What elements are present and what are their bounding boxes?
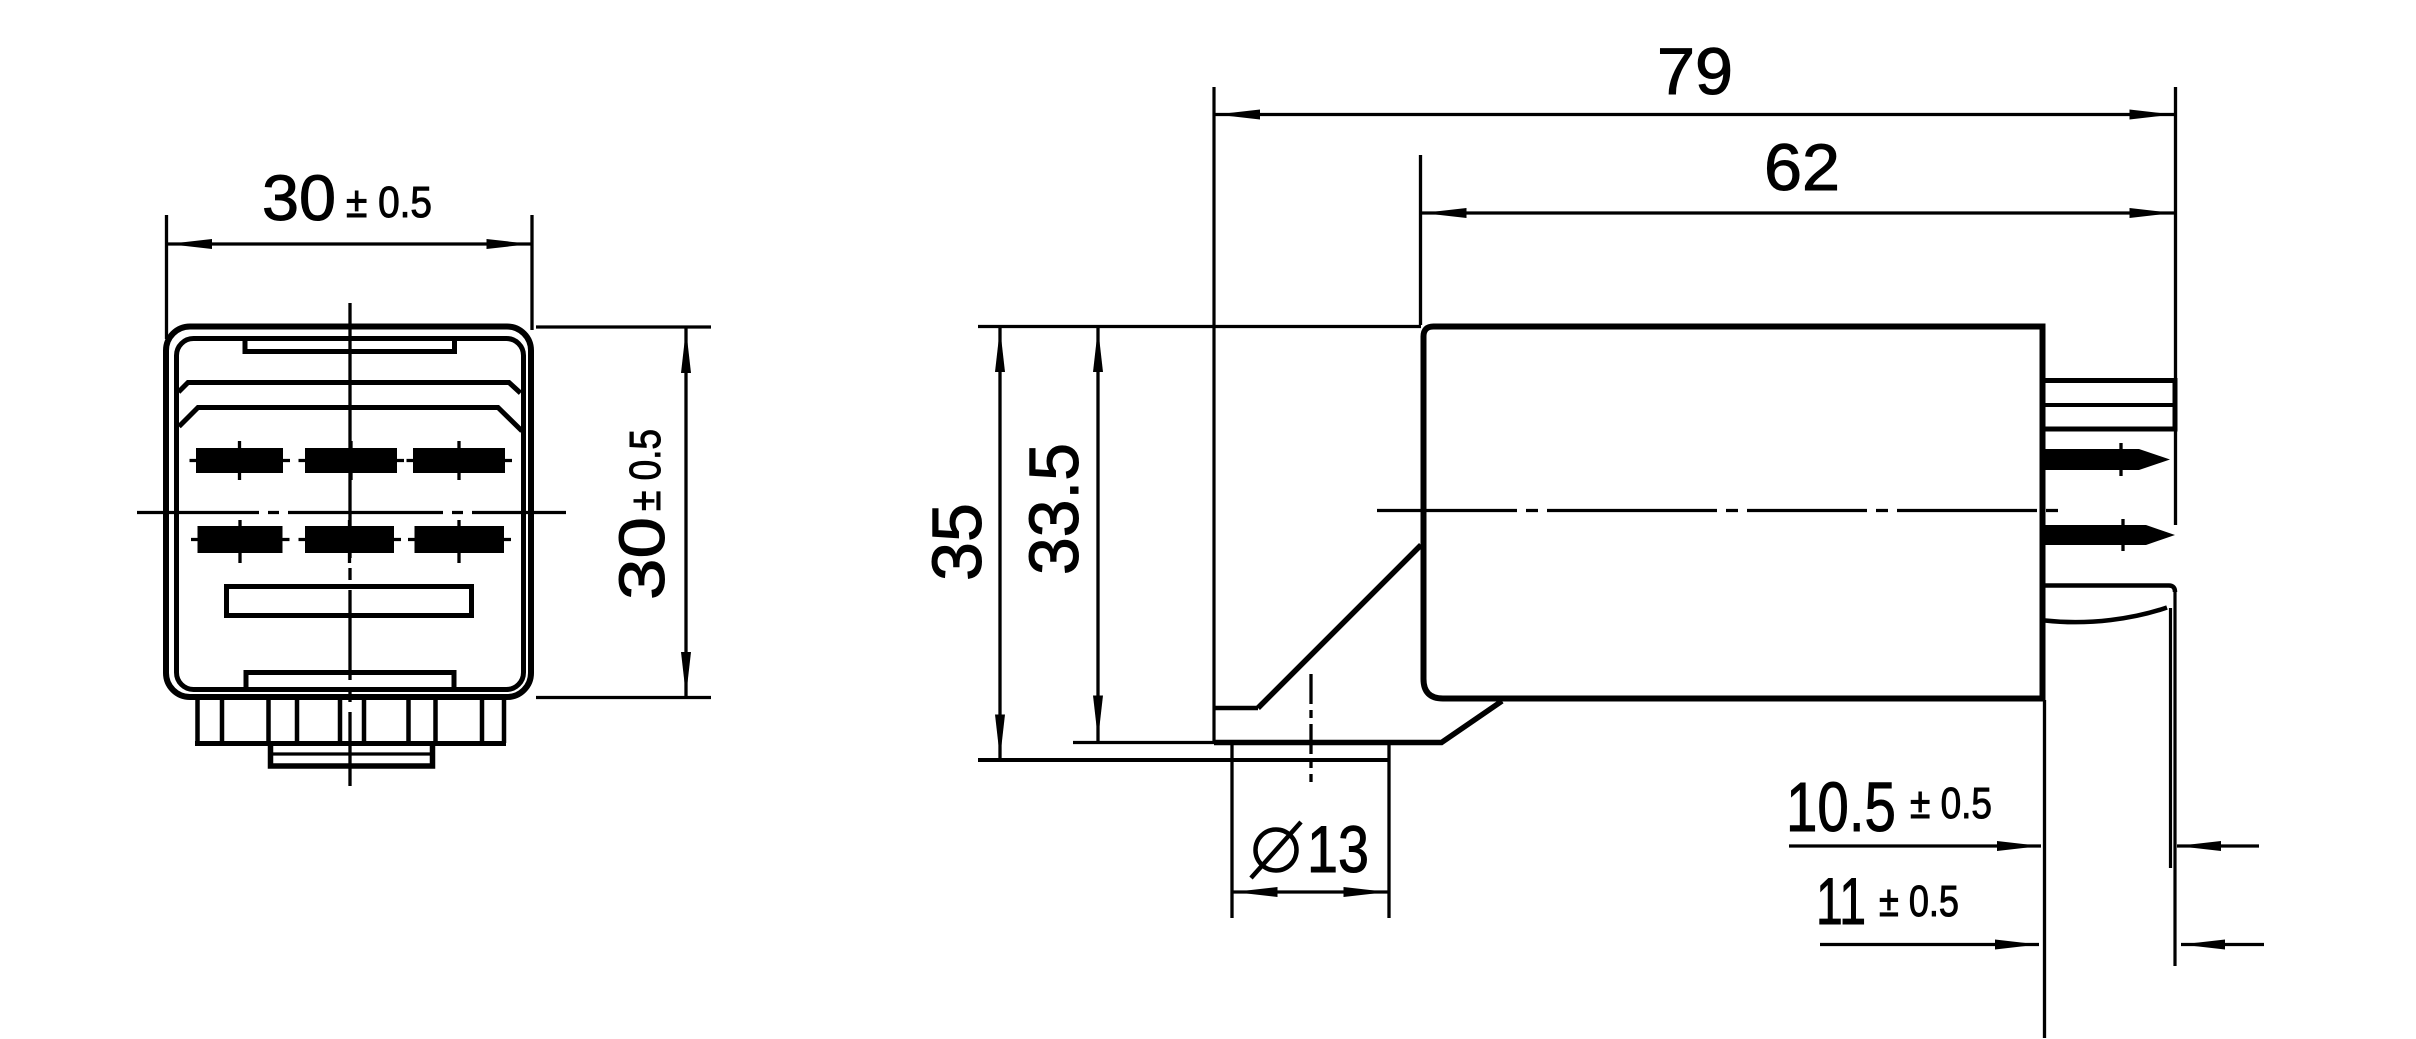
svg-text:35: 35 <box>918 503 996 581</box>
svg-text:11: 11 <box>1816 864 1866 938</box>
svg-text:30± 0.5: 30± 0.5 <box>606 429 678 600</box>
svg-text:62: 62 <box>1764 130 1840 204</box>
svg-text:30: 30 <box>262 162 336 234</box>
svg-text:13: 13 <box>1307 812 1369 886</box>
svg-text:33.5: 33.5 <box>1015 443 1093 575</box>
svg-text:10.5: 10.5 <box>1786 768 1896 846</box>
svg-text:79: 79 <box>1657 34 1733 108</box>
svg-text:± 0.5: ± 0.5 <box>346 178 432 227</box>
svg-text:± 0.5: ± 0.5 <box>1879 877 1959 926</box>
svg-text:± 0.5: ± 0.5 <box>1910 779 1992 828</box>
